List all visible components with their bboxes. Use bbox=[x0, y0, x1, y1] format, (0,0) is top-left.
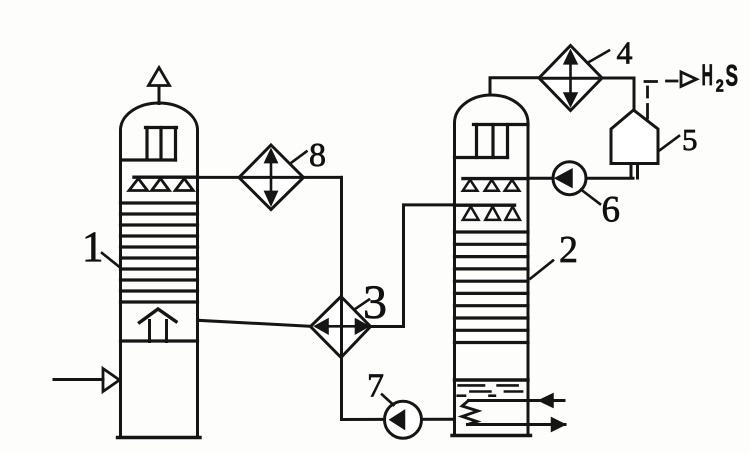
H2S text bbox=[702, 59, 739, 96]
heat exchanger E8 line through bbox=[243, 176, 300, 179]
wire separator to pump 6 and column C2 bbox=[528, 177, 633, 180]
svg-text:S: S bbox=[726, 60, 739, 93]
label 3 leader bbox=[355, 300, 370, 310]
column C1 bottom tray bbox=[121, 339, 198, 342]
column C2 spray nozzle a bbox=[463, 180, 478, 191]
column C1 vent arrow bbox=[149, 68, 170, 86]
acid gas dashed line bbox=[645, 81, 677, 118]
wire C2 overhead to exchanger 4 bbox=[490, 78, 539, 95]
steam outlet line bbox=[468, 423, 566, 426]
steam inlet line bbox=[469, 399, 565, 402]
label 4 leader bbox=[589, 51, 609, 63]
heat exchanger E8 body bbox=[239, 145, 304, 210]
label 8 leader bbox=[292, 152, 307, 163]
separator S5 outlet stub bbox=[631, 164, 638, 179]
column C1 spray nozzle a bbox=[129, 179, 148, 191]
column C1 gas inlet hood bbox=[140, 309, 177, 323]
wire pump 7 suction/discharge run bbox=[342, 418, 455, 421]
wire exchanger 8 down to pump 7 bbox=[340, 177, 343, 419]
svg-text:5: 5 bbox=[682, 122, 698, 157]
label 7 leader bbox=[382, 395, 394, 406]
label 6 leader bbox=[581, 190, 600, 205]
pump P6 body bbox=[553, 162, 586, 195]
heat exchanger E3 vertical line through bbox=[340, 299, 343, 355]
feed line into C1 bbox=[54, 378, 103, 381]
wire C1 bottoms to exchanger 3 bbox=[198, 320, 311, 326]
column C2 feed spray header bbox=[455, 203, 515, 206]
column C1 packing trays bbox=[121, 203, 198, 302]
column C1 gas inlet pipe legs bbox=[150, 321, 167, 342]
column C1 demister bbox=[122, 128, 177, 161]
label 5 leader bbox=[660, 136, 679, 150]
svg-text:7: 7 bbox=[367, 368, 384, 405]
svg-text:2: 2 bbox=[716, 76, 724, 96]
column C1 spray header bbox=[134, 175, 198, 178]
feed arrow into C1 bbox=[103, 369, 120, 392]
column C2 spray nozzle c bbox=[505, 180, 520, 191]
heat exchanger E4 line through bbox=[543, 77, 598, 80]
column C2 sump tray bbox=[455, 378, 529, 381]
pump P6 rotor bbox=[556, 169, 573, 187]
heat exchanger E8 coolant arrow bbox=[265, 149, 278, 206]
column C2 feed nozzle a bbox=[463, 207, 479, 220]
column C2 shell bbox=[452, 95, 531, 436]
column C2 feed nozzle b bbox=[485, 207, 500, 220]
label 1 leader bbox=[102, 253, 120, 267]
separator S5 body bbox=[611, 110, 658, 164]
wire exchanger 4 to separator bbox=[602, 78, 634, 110]
steam inlet arrow bbox=[539, 394, 553, 407]
svg-text:8: 8 bbox=[309, 137, 326, 174]
svg-text:1: 1 bbox=[82, 224, 104, 271]
svg-text:3: 3 bbox=[363, 276, 387, 329]
column C2 reflux spray header bbox=[463, 177, 528, 180]
svg-text:6: 6 bbox=[602, 190, 621, 231]
heat exchanger E4 body bbox=[539, 46, 602, 111]
label 2 leader bbox=[531, 261, 554, 279]
column C2 feed nozzle c bbox=[505, 207, 520, 220]
column C2 spray nozzle b bbox=[485, 180, 499, 191]
svg-text:4: 4 bbox=[617, 35, 633, 71]
svg-text:2: 2 bbox=[559, 229, 578, 271]
reboiler coil bbox=[462, 401, 478, 425]
column C1 spray nozzle b bbox=[152, 179, 170, 191]
column C1 spray nozzle c bbox=[175, 179, 193, 191]
column C1 vent pipe bbox=[158, 86, 161, 104]
column C2 packing trays bbox=[455, 232, 529, 343]
acid gas arrow bbox=[681, 72, 697, 86]
steam outlet arrow bbox=[552, 418, 566, 431]
separator S5 bottom line bbox=[611, 162, 658, 165]
column C2 demister bbox=[455, 125, 529, 158]
pump P7 body bbox=[385, 401, 422, 438]
pump P7 rotor bbox=[390, 411, 405, 430]
wire exchanger 3 to regenerator riser bbox=[371, 205, 455, 327]
column C1 shell bbox=[118, 103, 201, 437]
heat exchanger E3 body bbox=[311, 297, 371, 358]
svg-text:H: H bbox=[702, 59, 714, 92]
column C2 liquid level marks bbox=[458, 385, 522, 395]
wire C1 overhead to exchanger 8 bbox=[198, 176, 342, 179]
heat exchanger E4 coolant arrow bbox=[564, 50, 578, 107]
heat exchanger E3 horizontal arrow bbox=[315, 319, 370, 334]
